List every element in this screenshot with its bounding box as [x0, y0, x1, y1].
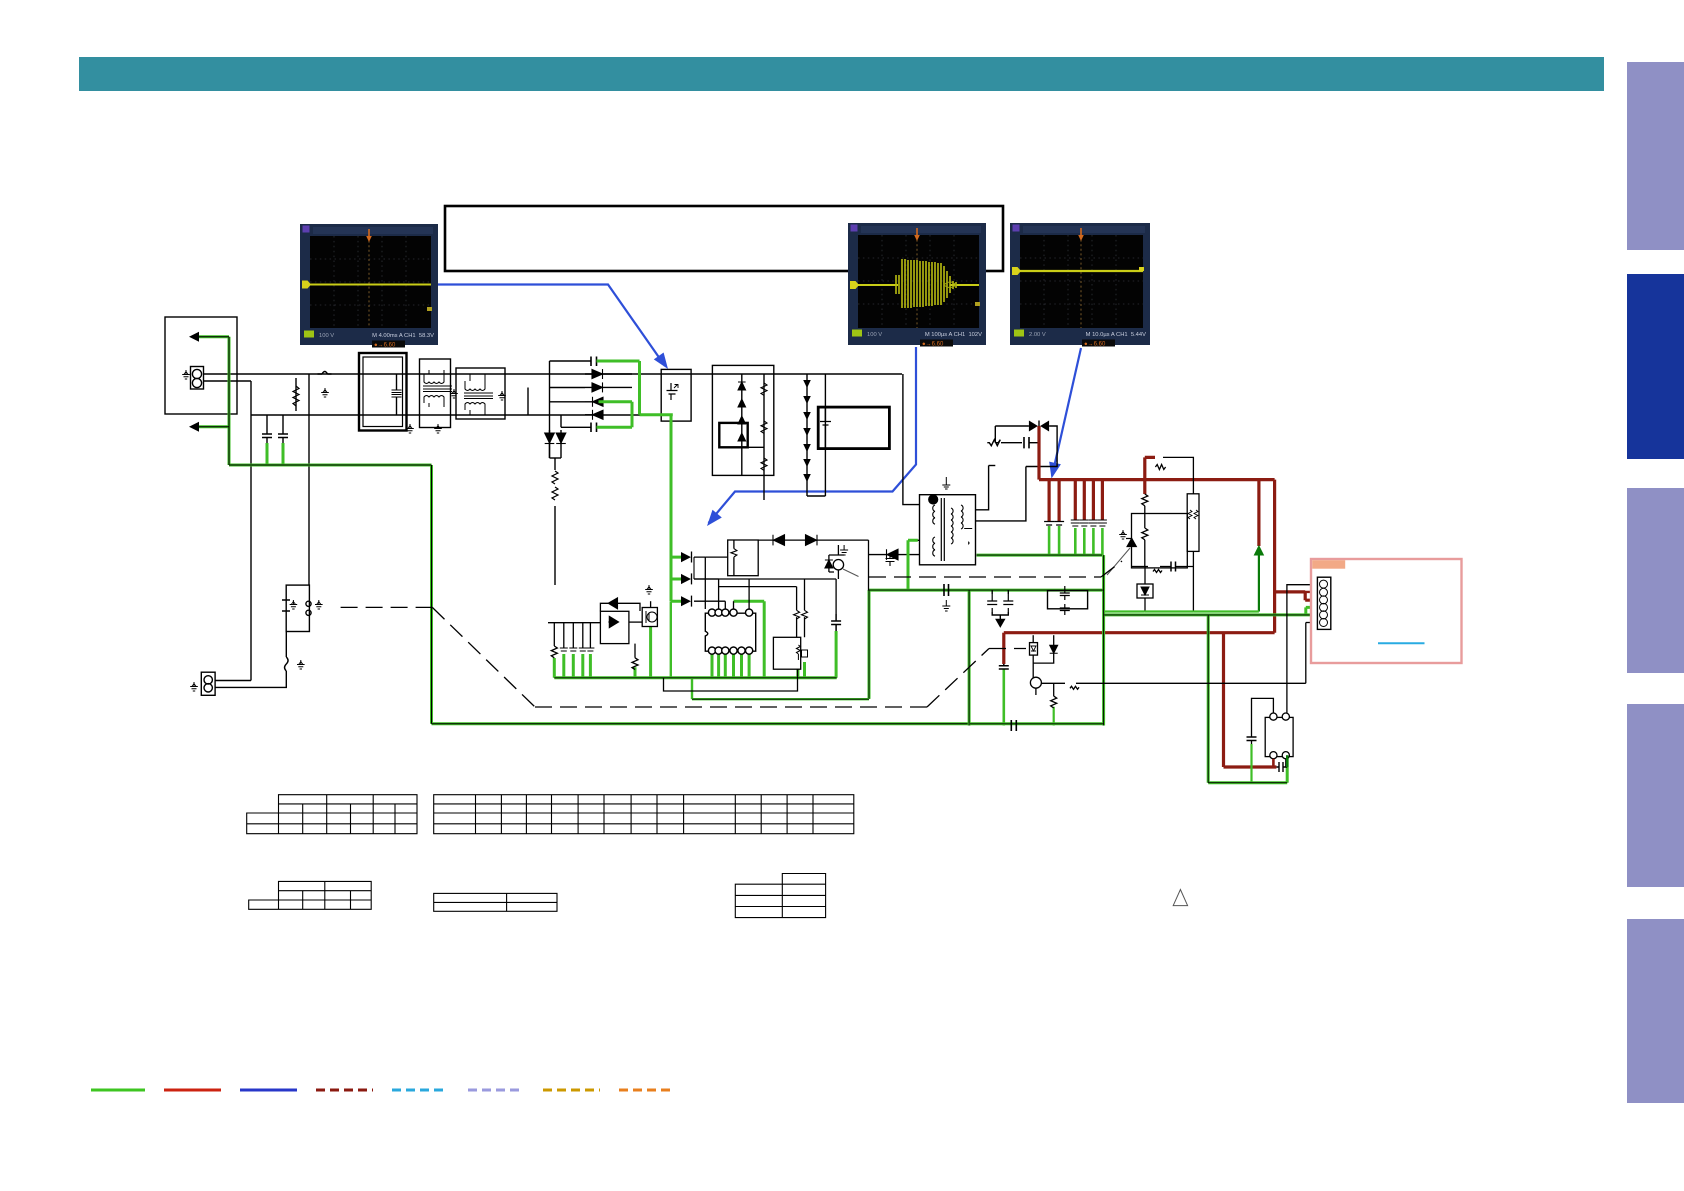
svg-text:2.00 V: 2.00 V [1029, 332, 1046, 338]
svg-text:●→6.60: ●→6.60 [1084, 342, 1106, 348]
svg-text:●→6.60: ●→6.60 [922, 342, 944, 348]
svg-text:100 V: 100 V [867, 332, 882, 338]
svg-text:100 V: 100 V [319, 333, 334, 339]
svg-text:●→6.60: ●→6.60 [374, 343, 396, 349]
svg-text:M 100µs A CH1 102V: M 100µs A CH1 102V [925, 332, 982, 338]
svg-text:M 4.00ms A CH1 58.3V: M 4.00ms A CH1 58.3V [372, 333, 434, 339]
svg-text:M 10.0µs A CH1 5.44V: M 10.0µs A CH1 5.44V [1086, 332, 1147, 338]
